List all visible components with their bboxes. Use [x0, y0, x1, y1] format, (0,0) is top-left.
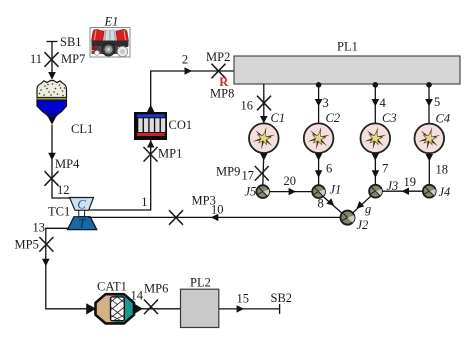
wire PL1 to C3 line 4: [374, 85, 376, 123]
svg-text:J4: J4: [439, 185, 451, 199]
svg-text:SB1: SB1: [60, 35, 82, 49]
cylinder C1: [249, 123, 279, 153]
svg-text:PL1: PL1: [337, 40, 358, 54]
svg-text:19: 19: [404, 175, 417, 189]
svg-text:J5: J5: [245, 185, 257, 199]
svg-text:5: 5: [434, 95, 440, 109]
svg-text:20: 20: [284, 174, 297, 188]
svg-text:J1: J1: [330, 183, 342, 197]
svg-text:7: 7: [382, 162, 388, 176]
svg-text:11: 11: [30, 52, 42, 66]
catalyst CAT1: [86, 280, 143, 324]
junction J2: [340, 211, 354, 225]
svg-text:4: 4: [380, 96, 387, 110]
svg-text:MP7: MP7: [61, 52, 85, 66]
svg-text:CL1: CL1: [71, 122, 93, 136]
wire C1 to J5: [263, 153, 264, 185]
valve MP1: [144, 147, 158, 162]
svg-text:J2: J2: [357, 218, 369, 232]
svg-text:3: 3: [323, 96, 329, 110]
svg-text:MP8: MP8: [210, 87, 234, 101]
valve MP6: [144, 300, 158, 315]
svg-text:C1: C1: [271, 111, 286, 125]
wire turbine to CAT1 line 13: [46, 228, 88, 308]
svg-text:8: 8: [318, 197, 324, 211]
cylinder C3: [361, 123, 391, 153]
svg-text:MP4: MP4: [55, 157, 80, 171]
svg-text:CAT1: CAT1: [97, 280, 127, 294]
valve MP3: [169, 210, 183, 225]
wire C2 to J1 line 6: [318, 153, 320, 185]
svg-text:C: C: [77, 198, 86, 212]
wire SB1 to CL1: [51, 42, 53, 74]
svg-text:12: 12: [57, 183, 70, 197]
cylinder C4: [415, 124, 445, 154]
svg-text:PL2: PL2: [190, 276, 211, 290]
arrow on line 2: [185, 67, 193, 74]
wire J1 to J2 line 8: [323, 196, 343, 214]
wire J5 to J1 line 20: [269, 191, 312, 193]
svg-text:TC1: TC1: [48, 205, 70, 219]
svg-text:MP2: MP2: [206, 50, 230, 64]
svg-text:2: 2: [182, 53, 188, 67]
svg-text:1: 1: [141, 195, 147, 209]
wire C3 to J3 line 7: [374, 153, 376, 185]
wire J4 to J3 line 19: [382, 190, 423, 192]
svg-text:MP9: MP9: [216, 165, 240, 179]
svg-text:18: 18: [436, 163, 449, 177]
wire CO1 to PL1 line 2: [151, 71, 234, 112]
arrow above CO1: [147, 105, 154, 112]
svg-text:16: 16: [241, 99, 254, 113]
svg-text:SB2: SB2: [271, 291, 293, 305]
svg-text:MP1: MP1: [158, 147, 182, 161]
wire J3 to J2 line g: [352, 196, 371, 214]
valve MP4: [45, 171, 59, 186]
arrow into CL1: [48, 72, 56, 80]
wire C4 to J4 line 18: [428, 153, 430, 184]
arrow into CO1: [147, 140, 154, 147]
valve 16: [257, 96, 271, 111]
svg-text:C3: C3: [382, 111, 397, 125]
svg-text:6: 6: [326, 162, 332, 176]
svg-text:15: 15: [237, 292, 250, 306]
svg-text:CO1: CO1: [169, 118, 193, 132]
svg-text:13: 13: [33, 221, 46, 235]
cooler CO1: [134, 112, 192, 140]
svg-text:17: 17: [242, 169, 255, 183]
wire PL1 to C2 line 3: [318, 85, 320, 123]
plenum PL2: [181, 289, 219, 327]
svg-text:C4: C4: [436, 112, 451, 126]
svg-text:MP6: MP6: [144, 282, 168, 296]
junction J1: [312, 185, 325, 198]
valve MP2: [212, 64, 226, 79]
svg-text:14: 14: [131, 289, 144, 303]
wire CL1 to TC1: [52, 125, 71, 198]
engine E1: [90, 14, 130, 57]
wire compressor outlet line 1: [90, 112, 151, 210]
junction J4: [423, 185, 436, 198]
node SB2 terminal: [279, 304, 281, 314]
cylinder C2: [304, 123, 334, 153]
wire PL1 to C1: [263, 84, 265, 124]
wire PL2 to SB2 line 15: [219, 308, 280, 310]
node SB1 terminal: [47, 41, 58, 43]
valve MP7: [45, 52, 59, 67]
valve MP5: [39, 237, 53, 252]
node PL1-C3 junction: [373, 82, 379, 88]
junction J5: [256, 185, 269, 198]
turbocharger TC1: [48, 198, 97, 231]
valve 17 MP9: [255, 166, 269, 181]
plenum PL1: [234, 56, 460, 84]
arrow on wire: [48, 153, 56, 161]
wire J2 to turbine line 10: [88, 216, 340, 218]
svg-text:E1: E1: [104, 14, 119, 28]
node PL1-C4 junction: [426, 82, 432, 88]
svg-text:C2: C2: [326, 111, 341, 125]
svg-text:MP5: MP5: [15, 238, 39, 252]
filter CL1: [37, 81, 93, 137]
node PL1-C2 junction: [316, 82, 322, 88]
wire PL1 to C4 line 5: [428, 85, 430, 124]
junction J3: [369, 185, 382, 198]
svg-text:g: g: [365, 202, 371, 216]
svg-text:T: T: [79, 216, 87, 230]
wire CAT1 to PL2: [141, 308, 181, 310]
